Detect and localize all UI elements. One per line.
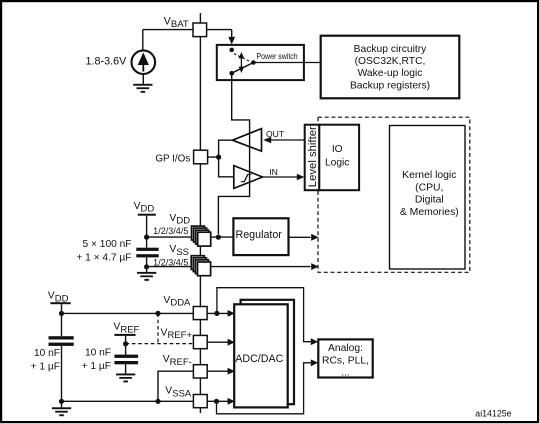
wire VDD net — [147, 236, 234, 238]
VREF supply bar — [114, 334, 135, 336]
svg-text:10 nF: 10 nF — [85, 347, 111, 358]
junction dot VSS left — [144, 264, 149, 269]
dashed wire VDDA to VREF+ — [157, 313, 159, 343]
wire VSS net — [147, 266, 311, 268]
wire VREF bar down — [125, 336, 127, 355]
ground (bottom left) — [61, 401, 63, 407]
power switch box — [217, 45, 304, 80]
switch contact top — [229, 48, 234, 53]
svg-text:ai14125e: ai14125e — [475, 408, 511, 418]
svg-text:1/2/3/4/5: 1/2/3/4/5 — [153, 257, 188, 267]
arrow VSSA into analog — [311, 359, 318, 366]
arrow VSSA into ADC — [228, 398, 235, 405]
svg-text:OUT: OUT — [266, 129, 285, 139]
pin VDDA — [193, 307, 207, 320]
junction dot VDD left — [144, 235, 149, 240]
arrow VDDA into ADC — [228, 310, 235, 317]
wire VSSA net — [62, 400, 229, 402]
arrow OUT (level shifter to driver) — [271, 139, 305, 141]
junction dot GP I/Os — [216, 155, 221, 160]
svg-text:Backup circuitry: Backup circuitry — [354, 44, 428, 55]
svg-text:Wake-up logic: Wake-up logic — [358, 68, 423, 79]
switch dashed link — [234, 54, 249, 61]
level shifter box — [305, 125, 320, 191]
svg-text:RCs, PLL,: RCs, PLL, — [322, 355, 369, 366]
pin GP I/Os — [194, 150, 208, 164]
pin VREF+ — [193, 335, 207, 348]
svg-text:Level shifter: Level shifter — [307, 126, 319, 187]
wire VSSA wrap to analog — [217, 363, 312, 414]
arrow into power switch — [228, 37, 235, 45]
wire VREF- to VSSA — [158, 371, 193, 401]
svg-text:1/2/3/4/5: 1/2/3/4/5 — [153, 226, 188, 236]
svg-text:& Memories): & Memories) — [400, 207, 459, 218]
junction dot VSSA left — [59, 399, 64, 404]
wire source bottom — [142, 74, 144, 84]
svg-text:Logic: Logic — [325, 157, 349, 168]
wire VDDA wrap to analog — [217, 288, 311, 342]
junction dot VREF — [123, 341, 128, 346]
arrow IN (schmitt to level shifter) — [263, 176, 298, 178]
ground (under C3) — [116, 374, 135, 383]
svg-text:IN: IN — [269, 167, 278, 177]
svg-text:+ 1 µF: + 1 µF — [82, 361, 111, 372]
pin VBAT — [193, 23, 207, 37]
kernel logic box — [390, 126, 466, 270]
voltage source V1 circle — [132, 50, 156, 74]
junction dot VDD right — [216, 235, 221, 240]
wire VREF+ to ADC — [208, 341, 228, 343]
svg-text:ADC/DAC: ADC/DAC — [235, 353, 283, 365]
ADC/DAC back box — [241, 300, 294, 404]
wire switch to backup — [253, 62, 320, 64]
VDD supply bar — [138, 214, 156, 216]
IO logic box — [319, 125, 359, 191]
svg-text:Regulator: Regulator — [236, 229, 283, 241]
junction dot VSSA right — [214, 399, 219, 404]
wire VBAT to power switch (down) — [231, 30, 233, 38]
svg-text:+ 1 × 4.7 µF: + 1 × 4.7 µF — [76, 252, 131, 263]
pin VSSA — [193, 395, 207, 408]
capacitor C2 (10nF+1uF) — [49, 336, 74, 346]
pin stack VDD 1/2/3/4/5 — [192, 226, 211, 246]
wire VDDA net — [62, 312, 229, 314]
dashed wire VREF+ — [126, 343, 194, 345]
buffer IN (schmitt trigger) — [234, 166, 263, 189]
schmitt hysteresis symbol — [241, 174, 252, 181]
svg-text:(CPU,: (CPU, — [415, 182, 443, 193]
pin stack VSS 1/2/3/4/5 — [191, 256, 210, 276]
arrow VREF+ into ADC — [228, 339, 235, 346]
junction dot VSSA mid — [155, 399, 160, 404]
svg-text:...: ... — [341, 368, 350, 379]
switch pole right — [251, 60, 256, 65]
svg-text:(OSC32K,RTC,: (OSC32K,RTC, — [355, 56, 426, 67]
VSS arrow into kernel region — [311, 263, 318, 270]
svg-text:Analog:: Analog: — [328, 343, 363, 354]
arrow VDDA into analog — [311, 338, 318, 345]
wire VDD bar down (bottom) — [61, 304, 63, 313]
switch double arrow — [240, 57, 242, 68]
VDD supply bar (bottom) — [50, 302, 70, 304]
capacitor C1 (5x100nF) — [136, 248, 158, 258]
wire power switch to buffers supply — [218, 73, 249, 234]
svg-text:5 × 100 nF: 5 × 100 nF — [83, 239, 132, 250]
ground (under source) — [133, 84, 152, 93]
svg-text:10 nF: 10 nF — [34, 348, 60, 359]
ADC/DAC front box — [234, 304, 288, 407]
switch lever — [232, 63, 254, 74]
switch contact bottom — [229, 71, 234, 76]
arrow VREF- into ADC — [228, 368, 235, 375]
voltage source arrow — [138, 52, 149, 65]
buffer OUT (driver) — [233, 129, 262, 152]
capacitor C3 (10nF+1uF) — [114, 355, 138, 365]
wire VBAT horizontal — [143, 29, 232, 31]
svg-text:GP I/Os: GP I/Os — [155, 154, 190, 165]
wire VDD bar down — [146, 216, 148, 237]
svg-text:Backup registers): Backup registers) — [350, 80, 430, 91]
svg-text:Power switch: Power switch — [257, 51, 298, 61]
backup circuitry box U-backup — [321, 36, 460, 99]
pin VREF- — [193, 365, 207, 378]
svg-text:Kernel logic: Kernel logic — [402, 170, 456, 181]
regulator box — [233, 218, 288, 255]
junction dot VDDA left — [59, 311, 64, 316]
wire VREF- to ADC — [208, 370, 228, 372]
regulator output arrow — [289, 236, 311, 238]
junction dot VDDA right — [214, 311, 219, 316]
junction dot VDDA mid — [155, 311, 160, 316]
svg-text:+ 1 µF: + 1 µF — [31, 362, 60, 373]
wire source top — [142, 30, 144, 51]
svg-text:1.8-3.6V: 1.8-3.6V — [86, 55, 128, 67]
chip pin rail (vertical) — [199, 13, 201, 413]
ground (under C1) — [146, 267, 148, 272]
node GP I/Os to OUT/IN wires — [208, 140, 234, 177]
dashed kernel supply region — [318, 117, 470, 272]
svg-text:IO: IO — [332, 144, 343, 155]
analog box — [318, 339, 372, 377]
svg-text:Digital: Digital — [415, 195, 444, 206]
